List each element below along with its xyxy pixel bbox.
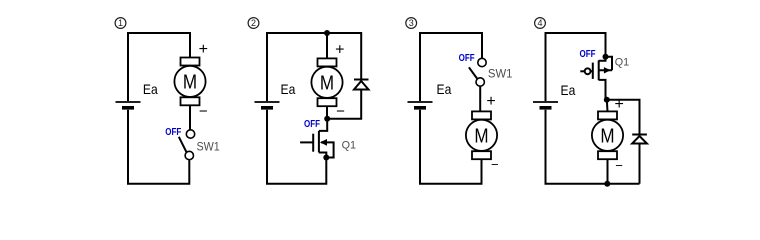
node: top junction motor+/diode (panel 2) [324, 30, 330, 36]
motor M (panel 4) [592, 111, 623, 159]
panel number 3 [406, 18, 417, 29]
svg-text:SW1: SW1 [197, 139, 221, 153]
svg-text:1: 1 [118, 18, 123, 28]
svg-text:−: − [615, 158, 623, 173]
battery Ea (panel 4) [533, 102, 558, 108]
svg-text:2: 2 [251, 18, 256, 28]
node: source/body junction (panel 4) [603, 54, 609, 60]
wire: switch to motor + (panel 3) [479, 86, 481, 111]
svg-text:Q1: Q1 [342, 139, 356, 151]
battery Ea (panel 2) [255, 102, 280, 108]
wire: node to motor + (panel 4) [606, 100, 609, 112]
svg-text:+: + [486, 93, 495, 110]
wire: battery + up and across to Q1 source (panel 4) [546, 33, 606, 101]
node: source/body junction (panel 2) [323, 155, 329, 161]
motor M (panel 3) [466, 111, 497, 159]
svg-text:+: + [199, 41, 208, 58]
panel number 1 [115, 18, 126, 29]
svg-text:OFF: OFF [580, 49, 596, 60]
wire: motor − down to bottom rail (panel 4) [607, 159, 609, 184]
svg-text:−: − [336, 103, 345, 120]
svg-text:M: M [320, 73, 334, 95]
wire: source to battery − (panel 2) [267, 110, 326, 184]
panel number 4 [535, 18, 546, 29]
transistor Q1 N-MOSFET (panel 2) [300, 119, 334, 158]
wire: switch to battery − (panel 1) [128, 110, 189, 184]
wire: node to motor + (panel 2) [326, 33, 328, 58]
svg-text:OFF: OFF [165, 127, 181, 138]
node: drain/motor+/diode junction (panel 4) [604, 97, 610, 103]
svg-text:Ea: Ea [143, 81, 158, 97]
wire: bottom rail to battery − (panel 4) [546, 110, 640, 184]
panel number 2 [248, 18, 259, 29]
diode D1 flyback (panel 4) [632, 135, 647, 144]
transistor Q1 P-MOSFET (panel 4) [580, 57, 612, 100]
battery Ea (panel 3) [408, 102, 433, 108]
svg-text:Ea: Ea [561, 82, 576, 98]
battery Ea (panel 1) [116, 102, 141, 108]
node: motor −/diode anode/drain junction (panel 2) [324, 116, 330, 122]
svg-text:−: − [491, 157, 499, 172]
wire: diode anode down to bottom rail (panel 4) [639, 144, 641, 184]
svg-text:Ea: Ea [281, 81, 296, 97]
motor M (panel 2) [311, 58, 342, 106]
switch SW1 (panel 1) [179, 130, 195, 160]
svg-text:M: M [183, 72, 197, 94]
svg-text:M: M [600, 126, 614, 148]
svg-text:Q1: Q1 [615, 57, 629, 69]
svg-text:−: − [199, 103, 208, 120]
wire: node to diode anode (panel 2) [327, 90, 361, 119]
svg-text:Ea: Ea [437, 81, 452, 97]
svg-text:OFF: OFF [459, 53, 475, 64]
wire: motor − to switch (panel 1) [189, 105, 191, 130]
wire: node to diode cathode (panel 4) [607, 100, 640, 134]
wire: motor − to battery − (panel 3) [420, 110, 482, 184]
svg-text:+: + [335, 41, 344, 58]
node: bottom rail junction (panel 4) [604, 181, 610, 187]
wire: battery + up and across to diode branch (panel 2) [267, 33, 361, 101]
motor M (panel 1) [174, 58, 205, 106]
switch SW1 (panel 3) [469, 58, 486, 86]
wire: motor − down to drain node (panel 2) [326, 106, 328, 119]
svg-text:SW1: SW1 [488, 67, 513, 81]
svg-text:OFF: OFF [304, 119, 320, 130]
svg-text:M: M [474, 126, 488, 148]
diode D1 flyback (panel 2) [354, 80, 369, 90]
svg-text:3: 3 [409, 18, 414, 28]
svg-text:4: 4 [537, 18, 542, 28]
svg-text:+: + [615, 96, 624, 113]
wire: battery + up and across to motor + (panel 1) [128, 33, 190, 101]
wire: battery + up and across to switch (panel 3) [420, 33, 482, 101]
